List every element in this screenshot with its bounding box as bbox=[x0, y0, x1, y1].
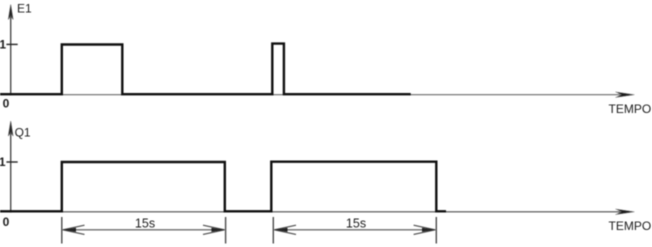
Q1 vertical axis arrowhead bbox=[8, 121, 13, 136]
dimension 15s #1 left arrowhead bbox=[63, 225, 85, 234]
dimension 15s #1 left extension line bbox=[61, 217, 63, 244]
E1 time axis arrowhead bbox=[616, 92, 635, 98]
Q1 waveform bbox=[0, 162, 446, 212]
svg-text:TEMPO: TEMPO bbox=[609, 219, 652, 233]
dimension 15s #1 line bbox=[63, 229, 224, 231]
dimension 15s #2 left extension line bbox=[272, 217, 274, 244]
svg-text:1: 1 bbox=[0, 38, 6, 52]
E1 time axis bbox=[0, 94, 626, 96]
dimension 15s #1 right extension line bbox=[225, 217, 227, 244]
dimension 15s #2 right arrowhead bbox=[414, 225, 436, 234]
Q1 time axis arrowhead bbox=[616, 209, 635, 215]
dimension 15s #2 left arrowhead bbox=[274, 225, 296, 234]
dimension 15s #2 right extension line bbox=[435, 217, 437, 244]
dimension 15s #1 right arrowhead bbox=[203, 225, 225, 234]
svg-text:0: 0 bbox=[3, 215, 10, 229]
svg-text:Q1: Q1 bbox=[15, 125, 31, 139]
Q1 time axis bbox=[0, 211, 626, 213]
svg-text:0: 0 bbox=[3, 96, 10, 110]
Q1 vertical axis bbox=[10, 123, 12, 213]
Q1 level-1 tick bbox=[6, 161, 17, 163]
dimension 15s #2 line bbox=[275, 229, 436, 231]
E1 vertical axis bbox=[10, 7, 12, 96]
svg-text:1: 1 bbox=[0, 155, 6, 169]
E1 level-1 tick bbox=[6, 43, 17, 45]
E1 waveform bbox=[0, 44, 411, 95]
svg-text:15s: 15s bbox=[135, 217, 155, 231]
svg-text:E1: E1 bbox=[17, 2, 32, 16]
svg-text:15s: 15s bbox=[346, 217, 366, 231]
E1 vertical axis arrowhead bbox=[8, 5, 13, 20]
svg-text:TEMPO: TEMPO bbox=[609, 102, 652, 116]
